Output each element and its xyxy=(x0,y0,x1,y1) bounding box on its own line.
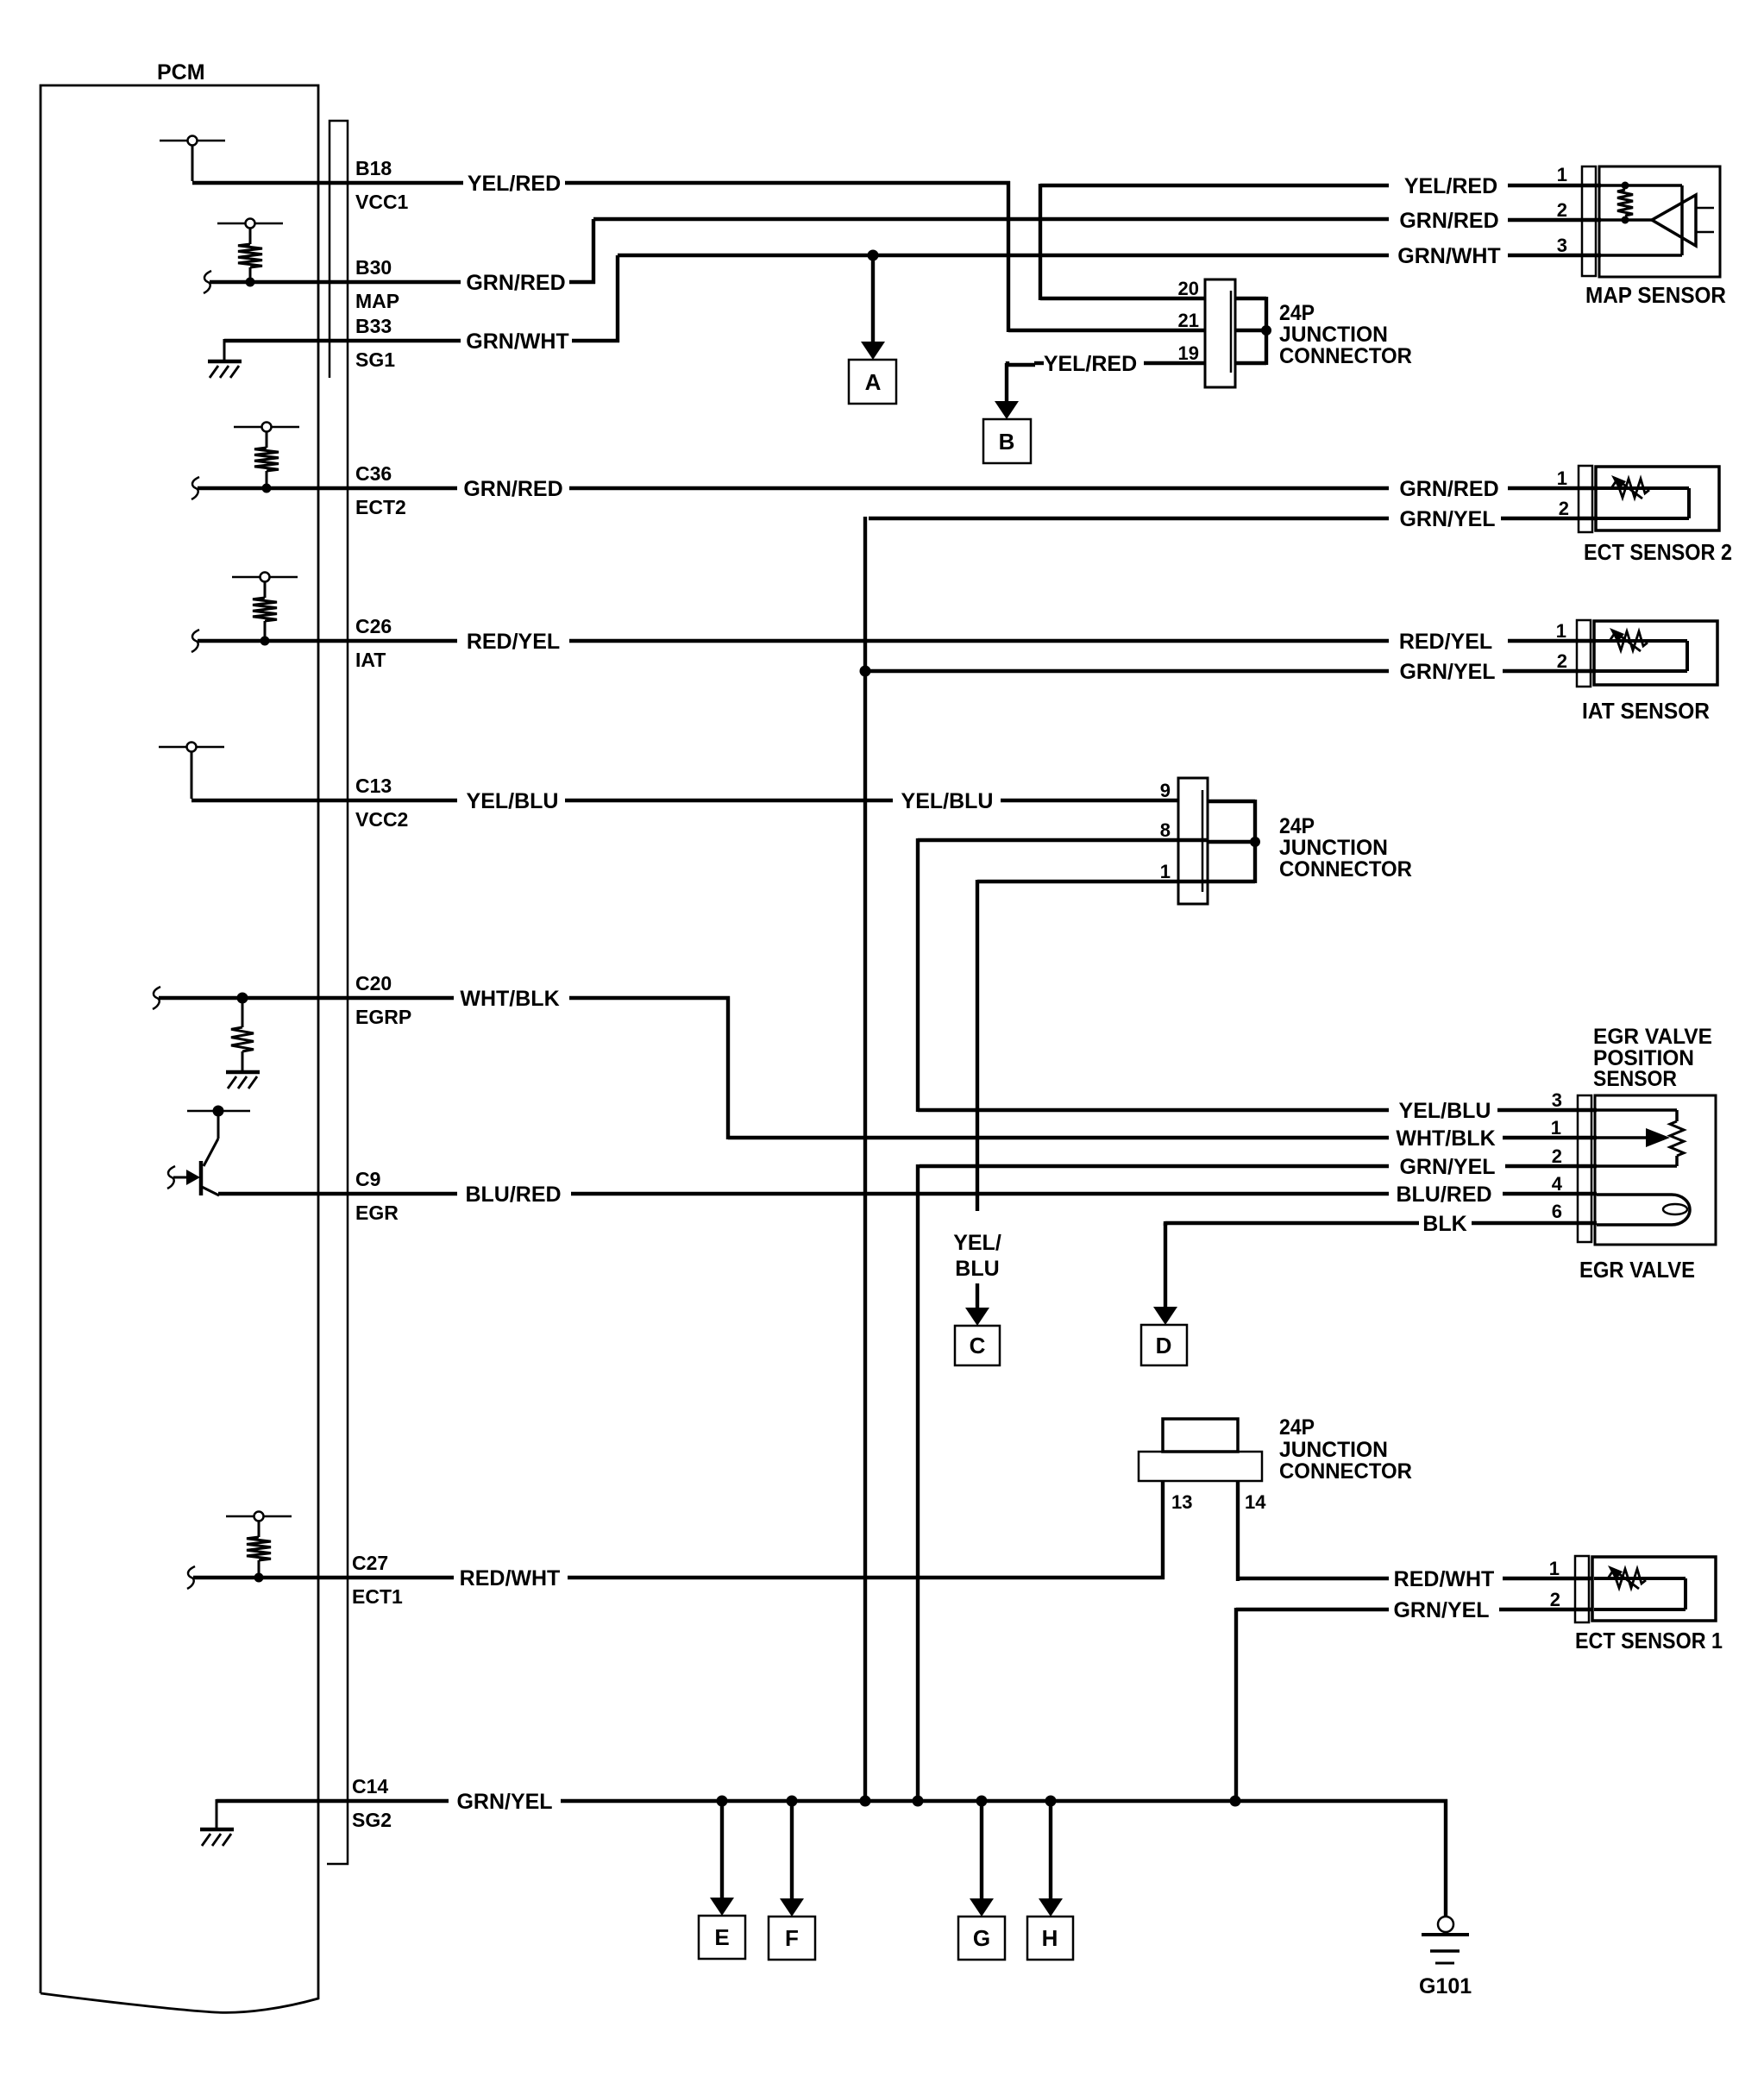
wire C13 YEL/BLU xyxy=(191,799,457,802)
svg-text:CONNECTOR: CONNECTOR xyxy=(1279,1459,1412,1484)
svg-text:IAT SENSOR: IAT SENSOR xyxy=(1582,698,1710,724)
svg-text:D: D xyxy=(1156,1333,1172,1358)
junction dot EGR return join xyxy=(913,1796,924,1807)
EGR valve bracket xyxy=(1578,1095,1591,1242)
junction connector 1 bus xyxy=(1235,297,1266,300)
svg-text:24P: 24P xyxy=(1279,1415,1315,1440)
svg-text:6: 6 xyxy=(1552,1201,1562,1222)
svg-text:GRN/YEL: GRN/YEL xyxy=(1399,660,1495,684)
connector box E xyxy=(699,1916,745,1959)
arrow to C xyxy=(976,1283,979,1309)
wire C9 BLU/RED xyxy=(218,1192,457,1195)
wire junction3 pin 14 xyxy=(1236,1481,1240,1581)
wire junction2 pin8 vertical YEL/BLU xyxy=(916,838,920,1112)
transistor C9 collector dot xyxy=(213,1106,224,1117)
PCM connector bar xyxy=(327,121,348,1864)
svg-text:1: 1 xyxy=(1160,861,1171,882)
svg-text:JUNCTION: JUNCTION xyxy=(1279,836,1388,860)
svg-text:WHT/BLK: WHT/BLK xyxy=(460,987,559,1011)
svg-text:C14: C14 xyxy=(352,1775,388,1798)
svg-text:ECT2: ECT2 xyxy=(355,496,406,518)
svg-text:YEL/: YEL/ xyxy=(953,1231,1001,1255)
svg-text:14: 14 xyxy=(1245,1491,1266,1513)
junction dot H xyxy=(1045,1796,1057,1807)
ground G101 symbol xyxy=(1438,1917,1453,1932)
svg-text:RED/WHT: RED/WHT xyxy=(460,1566,561,1590)
connector box H xyxy=(1027,1917,1073,1960)
svg-text:SG2: SG2 xyxy=(352,1809,392,1831)
svg-text:24P: 24P xyxy=(1279,301,1315,325)
VCC2 internal supply symbol xyxy=(159,743,224,800)
svg-text:GRN/WHT: GRN/WHT xyxy=(1397,244,1500,268)
wire C27 RED/WHT xyxy=(193,1576,454,1579)
svg-text:YEL/BLU: YEL/BLU xyxy=(467,789,559,813)
svg-text:C20: C20 xyxy=(355,972,392,994)
svg-text:VCC2: VCC2 xyxy=(355,808,408,831)
wire junction2 pin 1 xyxy=(977,880,1208,883)
svg-text:GRN/YEL: GRN/YEL xyxy=(1399,507,1495,531)
wire C14 GRN/YEL bus xyxy=(217,1799,449,1803)
resistor pull-down C20 dot xyxy=(237,993,248,1004)
svg-text:A: A xyxy=(865,369,882,395)
svg-text:B30: B30 xyxy=(355,256,392,279)
svg-text:CONNECTOR: CONNECTOR xyxy=(1279,344,1412,368)
ground SG2 xyxy=(200,1829,234,1846)
svg-text:1: 1 xyxy=(1557,467,1567,489)
wire ECT1 pin2 GRN/YEL xyxy=(1236,1608,1389,1611)
break mark C26 wire xyxy=(191,630,199,652)
svg-text:1: 1 xyxy=(1551,1117,1561,1139)
ground SG2 drop xyxy=(216,1799,218,1829)
svg-text:ECT1: ECT1 xyxy=(352,1585,403,1608)
svg-text:SENSOR: SENSOR xyxy=(1593,1067,1677,1091)
connector box G xyxy=(958,1917,1005,1960)
svg-text:G: G xyxy=(973,1925,990,1951)
svg-text:21: 21 xyxy=(1178,310,1199,331)
wire YEL/RED to MAP sensor pin 1 xyxy=(1040,184,1389,187)
ground SG1 drop xyxy=(223,339,226,361)
wire GRN/YEL vertical (ECT1 to SG2) xyxy=(1234,1608,1238,1801)
svg-text:GRN/RED: GRN/RED xyxy=(1399,477,1498,501)
wire YEL/BLU to EGR pin 3 xyxy=(918,1108,1389,1112)
svg-text:C26: C26 xyxy=(355,615,392,637)
svg-text:1: 1 xyxy=(1557,164,1567,185)
junction connector 2 bus xyxy=(1208,800,1255,803)
wire ECT2 pin2 GRN/YEL xyxy=(869,517,1389,520)
EGR pot wiper xyxy=(1597,1136,1646,1139)
wire vertical junction pin 20 xyxy=(1039,184,1042,300)
EGR pot resistor xyxy=(1675,1110,1679,1121)
resistor pull-up C36 xyxy=(234,423,299,493)
svg-text:MAP: MAP xyxy=(355,290,399,312)
svg-text:20: 20 xyxy=(1178,278,1199,299)
ECT sensor 2 xyxy=(1579,466,1719,532)
svg-text:IAT: IAT xyxy=(355,649,386,671)
arrow to D xyxy=(1164,1223,1167,1308)
wire GRN/YEL vertical (EGR pin2 to SG2) xyxy=(916,1164,920,1801)
wire WHT/BLK vertical xyxy=(726,996,730,1139)
EGR valve case xyxy=(1595,1095,1716,1245)
transistor C9 emitter arrow xyxy=(173,1176,188,1179)
break mark C36 wire xyxy=(191,477,199,499)
svg-text:G101: G101 xyxy=(1419,1974,1472,1998)
svg-text:BLU/RED: BLU/RED xyxy=(1396,1183,1491,1207)
MAP sensor resistor xyxy=(1617,190,1633,216)
svg-text:GRN/YEL: GRN/YEL xyxy=(1399,1155,1495,1179)
svg-text:2: 2 xyxy=(1557,199,1567,221)
wire junction pin 20 xyxy=(1040,297,1205,300)
MAP sensor bracket xyxy=(1582,166,1596,276)
resistor pull-up C27 xyxy=(226,1512,292,1583)
wire GRN/WHT vertical xyxy=(616,255,619,342)
wire B33 GRN/WHT xyxy=(224,339,461,342)
svg-text:GRN/RED: GRN/RED xyxy=(466,271,565,295)
wire B18 YEL/RED (PCM to corner) xyxy=(192,181,463,185)
junction dot IAT return xyxy=(860,666,871,677)
svg-text:1: 1 xyxy=(1549,1558,1560,1579)
wire GRN/YEL from EGR pin 2 xyxy=(920,1164,1389,1168)
svg-text:MAP SENSOR: MAP SENSOR xyxy=(1585,282,1726,308)
svg-text:H: H xyxy=(1042,1925,1058,1951)
wire junction pin 21 xyxy=(1008,329,1205,332)
MAP sensor amplifier triangle xyxy=(1652,195,1696,246)
junction connector 1 bus dot xyxy=(1261,325,1271,336)
wire junction pin 19 xyxy=(1144,361,1205,365)
junction dot F xyxy=(787,1796,798,1807)
svg-text:3: 3 xyxy=(1557,235,1567,256)
connector box B xyxy=(983,419,1031,463)
svg-text:B18: B18 xyxy=(355,157,392,179)
IAT sensor xyxy=(1577,620,1717,687)
junction connector 2 bus dot xyxy=(1250,837,1260,847)
svg-text:B: B xyxy=(999,429,1015,455)
svg-text:CONNECTOR: CONNECTOR xyxy=(1279,857,1412,882)
MAP sensor internal wire pin1 xyxy=(1601,184,1682,187)
svg-text:SG1: SG1 xyxy=(355,348,395,371)
junction dot GRN/YEL bus join xyxy=(860,1796,871,1807)
resistor pull-down C20 xyxy=(242,998,244,1027)
svg-text:1: 1 xyxy=(1556,620,1566,642)
wire GRN/RED vertical xyxy=(592,219,595,284)
break mark C27 wire xyxy=(187,1566,195,1589)
svg-text:YEL/RED: YEL/RED xyxy=(1404,174,1497,198)
svg-text:3: 3 xyxy=(1552,1089,1562,1111)
wire junction3 pin 13 xyxy=(1161,1481,1164,1579)
ground C20 xyxy=(226,1072,260,1089)
wire YEL/RED vertical to junction pin 21 xyxy=(1007,181,1010,332)
ground SG1 xyxy=(208,361,242,378)
MAP sensor case xyxy=(1599,166,1720,277)
MAP sensor internal wire pin3 xyxy=(1601,254,1682,257)
arrow to B xyxy=(1005,363,1008,403)
svg-text:PCM: PCM xyxy=(157,60,205,85)
junction dot ECT1 return join xyxy=(1230,1796,1241,1807)
svg-text:JUNCTION: JUNCTION xyxy=(1279,323,1388,347)
arrow to E xyxy=(720,1801,724,1899)
svg-text:ECT SENSOR 1: ECT SENSOR 1 xyxy=(1575,1628,1723,1653)
svg-text:C9: C9 xyxy=(355,1168,380,1190)
svg-text:C: C xyxy=(970,1333,986,1358)
svg-text:BLU: BLU xyxy=(955,1257,999,1281)
wire C36 GRN/RED xyxy=(198,486,457,490)
break mark C9 emitter xyxy=(167,1166,175,1189)
arrow to H xyxy=(1049,1801,1052,1900)
svg-text:19: 19 xyxy=(1178,342,1199,364)
svg-text:EGR: EGR xyxy=(355,1201,399,1224)
wire GRN/YEL bus vertical (ECT2 to SG2) xyxy=(863,517,867,1801)
wire GRN/WHT to MAP sensor pin 3 xyxy=(618,254,1389,257)
EGR pot internal pin2 xyxy=(1597,1164,1677,1168)
svg-text:4: 4 xyxy=(1552,1173,1563,1195)
wire SG2 to ground G101 xyxy=(1444,1799,1447,1917)
svg-text:RED/WHT: RED/WHT xyxy=(1394,1567,1495,1591)
svg-text:GRN/RED: GRN/RED xyxy=(1399,209,1498,233)
MAP sensor internal vertical xyxy=(1680,185,1684,255)
24P junction connector 3 body xyxy=(1163,1419,1238,1452)
svg-text:B33: B33 xyxy=(355,315,392,337)
24P junction connector 1 body xyxy=(1205,279,1235,387)
PCM box outline xyxy=(41,85,318,2012)
wire BLK vertical to D xyxy=(1164,1221,1167,1226)
wire WHT/BLK to EGR pin 1 xyxy=(728,1136,1389,1139)
VCC1 internal supply symbol xyxy=(160,136,225,182)
svg-text:BLK: BLK xyxy=(1422,1212,1466,1236)
connector box C xyxy=(955,1326,1000,1365)
junction dot node A branch xyxy=(868,250,879,261)
svg-text:BLU/RED: BLU/RED xyxy=(465,1183,561,1207)
junction dot G xyxy=(976,1796,988,1807)
wire C20 WHT/BLK xyxy=(159,996,454,1000)
break mark B30 wire xyxy=(204,271,211,293)
connector box A xyxy=(849,360,896,404)
svg-text:GRN/RED: GRN/RED xyxy=(463,477,562,501)
wire GRN/RED to MAP sensor pin 2 xyxy=(593,217,1389,221)
svg-text:EGRP: EGRP xyxy=(355,1006,411,1028)
svg-text:24P: 24P xyxy=(1279,814,1315,838)
wire C26 RED/YEL xyxy=(198,639,457,643)
svg-text:F: F xyxy=(785,1925,799,1951)
svg-text:2: 2 xyxy=(1557,650,1567,672)
svg-text:WHT/BLK: WHT/BLK xyxy=(1396,1126,1495,1151)
svg-text:8: 8 xyxy=(1160,819,1171,841)
svg-text:EGR VALVE: EGR VALVE xyxy=(1579,1257,1695,1283)
connector box D xyxy=(1141,1325,1187,1365)
wire junction2 pin1 vertical YEL/BLU xyxy=(976,880,979,1211)
wire BLK from EGR pin 6 xyxy=(1165,1221,1419,1225)
arrow to G xyxy=(980,1801,983,1900)
svg-text:RED/YEL: RED/YEL xyxy=(467,630,560,654)
break mark C20 wire xyxy=(153,987,160,1009)
junction dot E xyxy=(717,1796,728,1807)
svg-text:YEL/BLU: YEL/BLU xyxy=(1399,1099,1491,1123)
wire junction2 pin 8 xyxy=(918,838,1208,842)
svg-text:VCC1: VCC1 xyxy=(355,191,409,213)
resistor pull-up B30 xyxy=(217,219,283,287)
MAP sensor internal wire pin2 xyxy=(1601,218,1652,222)
wire YEL/RED corner to B xyxy=(1006,361,1009,366)
svg-text:C27: C27 xyxy=(352,1552,388,1574)
wire IAT pin2 GRN/YEL xyxy=(865,669,1389,673)
24P junction connector 2 body xyxy=(1178,778,1208,904)
arrow to F xyxy=(790,1801,794,1900)
svg-text:C13: C13 xyxy=(355,775,392,797)
EGR pot internal pin3 xyxy=(1597,1108,1677,1112)
wire RED/WHT junction3 to ECT1 xyxy=(1236,1577,1389,1580)
svg-text:JUNCTION: JUNCTION xyxy=(1279,1438,1388,1462)
svg-text:ECT SENSOR 2: ECT SENSOR 2 xyxy=(1584,539,1732,565)
svg-text:GRN/YEL: GRN/YEL xyxy=(1393,1598,1489,1622)
svg-text:2: 2 xyxy=(1559,498,1569,519)
svg-text:YEL/RED: YEL/RED xyxy=(1044,352,1137,376)
svg-text:C36: C36 xyxy=(355,462,392,485)
wire B30 GRN/RED xyxy=(210,280,461,284)
svg-text:YEL/RED: YEL/RED xyxy=(468,172,561,196)
svg-text:YEL/BLU: YEL/BLU xyxy=(901,789,994,813)
svg-text:E: E xyxy=(714,1924,729,1950)
svg-text:2: 2 xyxy=(1550,1589,1560,1610)
ECT sensor 1 xyxy=(1575,1556,1716,1622)
svg-text:GRN/YEL: GRN/YEL xyxy=(456,1790,552,1814)
svg-text:9: 9 xyxy=(1160,780,1171,801)
svg-text:13: 13 xyxy=(1171,1491,1192,1513)
svg-text:GRN/WHT: GRN/WHT xyxy=(466,329,568,354)
EGR solenoid coil xyxy=(1597,1193,1672,1196)
svg-text:RED/YEL: RED/YEL xyxy=(1399,630,1492,654)
transistor C9 xyxy=(201,1111,219,1195)
connector box F xyxy=(769,1917,815,1960)
arrow to A xyxy=(871,255,875,343)
svg-text:2: 2 xyxy=(1552,1145,1562,1167)
svg-text:EGR VALVE: EGR VALVE xyxy=(1593,1025,1712,1049)
resistor pull-up C26 xyxy=(232,573,298,646)
MAP sensor output stubs xyxy=(1696,207,1714,210)
transistor C9 top rail xyxy=(187,1110,250,1113)
